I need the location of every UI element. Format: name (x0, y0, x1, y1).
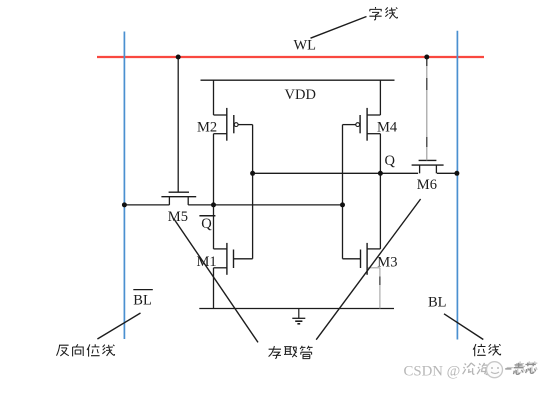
svg-text:M5: M5 (168, 209, 188, 225)
watermark yi-zhi-xin ghost (CJK drawn, light gray) (507, 361, 538, 373)
junction dot left column/Qbar wire (211, 202, 216, 207)
bit-line-bar vertical (blue, left) (123, 32, 125, 340)
label fan-xiang-wei-xian (inverted bit line, CJK drawn) (57, 344, 115, 356)
label M1 (197, 254, 217, 270)
label VDD (285, 87, 316, 103)
svg-text:M2: M2 (197, 119, 217, 135)
transistor M2 (PMOS left) (214, 108, 253, 141)
pointer line to word-line label (311, 17, 367, 39)
junction dot WL/M5 gate (176, 55, 181, 60)
junction dot M2 gate column/Q wire (250, 171, 255, 176)
wire: right column M4 drain to M3 drain (node Q) (379, 134, 381, 249)
pointer line access-label to M5 (174, 219, 258, 342)
svg-text:M4: M4 (377, 119, 398, 135)
label M6 (417, 177, 437, 193)
label M3 (377, 255, 397, 271)
wire: cross-couple vertical M2 gate to M1 gate (252, 125, 254, 259)
label M4 (377, 119, 398, 135)
pointer line to BL label (444, 314, 483, 340)
wire: cross-couple vertical M4 gate to M3 gate (342, 125, 344, 259)
wire: node Q horizontal to BL (right of M6) (437, 172, 457, 174)
junction dot BLbar/Qbar wire (122, 202, 127, 207)
label cun-qu-guan (access transistors, CJK drawn) (269, 346, 313, 359)
transistor M1 (NMOS left) (214, 243, 253, 275)
transistor M3 (NMOS right) (343, 243, 381, 275)
label Qbar (199, 216, 215, 233)
junction dot WL/M6 gate (424, 55, 429, 60)
junction dot M4 gate column/Qbar wire (340, 202, 345, 207)
svg-text:M6: M6 (417, 177, 437, 193)
wire: right column VDD to M4 source (379, 80, 381, 115)
word line WL (red) (97, 56, 484, 58)
svg-text:WL: WL (294, 38, 317, 54)
ground rail (199, 308, 394, 310)
wire: left column M1 source to ground rail (213, 268, 215, 309)
watermark cang-hai (CJK drawn, gray) (463, 363, 490, 375)
wire: left column VDD to M2 source (213, 80, 215, 115)
label M2 (197, 119, 217, 135)
wire: node Qbar horizontal BLbar to M5 (124, 204, 169, 206)
wire: node Qbar horizontal M5 to M3 gate column (188, 204, 342, 206)
svg-text:BL: BL (428, 294, 447, 310)
transistor M6 (access NMOS right) (412, 57, 444, 173)
svg-text:BL: BL (133, 293, 152, 309)
label wei-xian (bit line, CJK drawn) (473, 344, 501, 356)
bit-line vertical (blue, right) (456, 31, 458, 340)
VDD rail (201, 79, 395, 81)
label BLbar (133, 290, 153, 309)
svg-text:M3: M3 (377, 255, 397, 271)
wire: left column M2 drain to M1 drain (node Qbar) (213, 134, 215, 249)
junction dot node Q right column (378, 171, 383, 176)
watermark CSDN (404, 364, 461, 380)
label Q (385, 153, 396, 169)
label BL (428, 294, 447, 310)
svg-text:CSDN @: CSDN @ (404, 364, 461, 380)
svg-text:Q: Q (385, 153, 396, 169)
label zi-xian (word line, CJK drawn) (369, 7, 397, 20)
wire: node Q horizontal (left part) (253, 172, 419, 174)
ground symbol (292, 309, 305, 324)
pointer line access-label to M6 (316, 199, 420, 340)
wire: right column M3 source to ground rail (faint) (379, 268, 381, 309)
watermark yi-zhi-xin (CJK drawn, darker gray) (505, 363, 536, 375)
pointer line to BLbar label (97, 313, 140, 339)
transistor M5 (access NMOS left) (161, 57, 196, 205)
label WL (294, 38, 317, 54)
transistor M4 (PMOS right) (343, 108, 381, 141)
label M5 (168, 209, 188, 225)
svg-text:Q: Q (201, 216, 212, 232)
watermark emoji circle (487, 362, 503, 378)
svg-text:VDD: VDD (285, 87, 316, 103)
junction dot BL/Q wire (454, 171, 459, 176)
